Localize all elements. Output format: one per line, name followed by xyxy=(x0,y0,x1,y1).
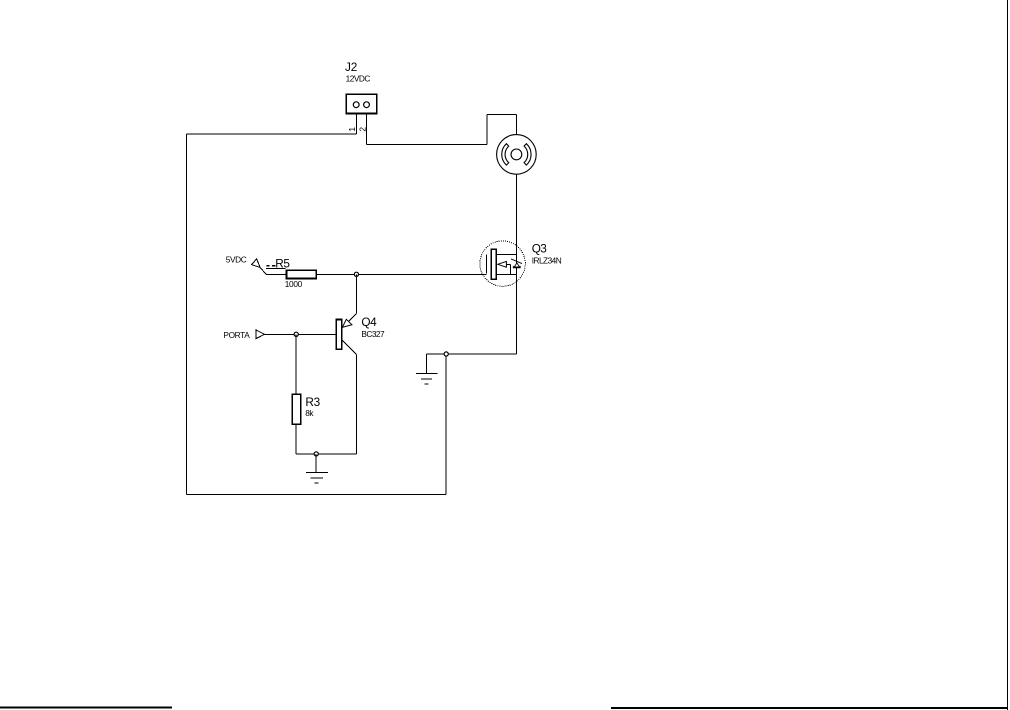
mosfet Q3 envelope circle xyxy=(480,241,525,286)
wire bottom horizontal xyxy=(186,493,446,495)
resistor R5 body xyxy=(287,270,317,278)
wire R3 top xyxy=(295,334,297,394)
wire up jog xyxy=(486,115,488,145)
wire source horizontal xyxy=(427,353,517,355)
J2 pin 1 circle xyxy=(353,102,359,108)
J2 pin 2 circle xyxy=(364,102,370,108)
wire jog right to buzzer xyxy=(487,114,516,116)
buzzer body circle xyxy=(497,135,537,175)
junction bottom node xyxy=(314,452,318,456)
wire left edge vertical xyxy=(185,134,187,494)
wire top horizontal to left edge xyxy=(186,133,356,135)
Q3 body diode triangle xyxy=(514,263,519,267)
Q3 body diode cup xyxy=(513,266,520,268)
svg-text:12VDC: 12VDC xyxy=(346,74,371,84)
wire right edge up to source node xyxy=(445,354,447,494)
ground G2 stem xyxy=(315,454,317,473)
wire 5VDC lead diagonal xyxy=(260,268,266,275)
wire J2 pin2 down xyxy=(366,114,368,145)
wire pin2 horizontal right xyxy=(367,143,487,145)
Q3 source bottom connection xyxy=(496,273,516,275)
junction base/R3 xyxy=(294,332,298,336)
connector J2 xyxy=(346,94,377,113)
wire J2 pin1 down xyxy=(355,114,357,135)
Q3 substrate arrow xyxy=(498,261,507,267)
svg-text:BC327: BC327 xyxy=(361,329,385,339)
label R5 underline xyxy=(266,267,285,269)
Q3 gate bar xyxy=(485,255,487,274)
Q3 drain connection xyxy=(496,253,516,255)
wire collector diagonal xyxy=(342,340,357,354)
Q3 substrate arrow line xyxy=(506,263,510,265)
sheet border right edge xyxy=(1007,0,1009,710)
svg-text:Q3: Q3 xyxy=(532,242,547,256)
buzzer inner circle xyxy=(511,149,522,160)
wire emitter diagonal xyxy=(342,314,357,328)
svg-text:1: 1 xyxy=(347,127,357,132)
port flag PORTA triangle xyxy=(256,330,265,339)
wire base xyxy=(264,333,336,335)
transistor Q4 emitter arrow xyxy=(342,319,352,327)
ground G1 bars xyxy=(416,373,438,375)
ground G2 bars xyxy=(306,472,328,474)
svg-text:IRLZ34N: IRLZ34N xyxy=(532,255,562,265)
wire bottom node horizontal xyxy=(296,453,356,455)
svg-text:R3: R3 xyxy=(305,395,320,409)
svg-text:J2: J2 xyxy=(345,60,357,74)
svg-text:R5: R5 xyxy=(275,257,290,271)
resistor R3 body xyxy=(292,394,301,424)
wire drain vertical through Q3 xyxy=(515,174,517,354)
sheet border bottom-right segment xyxy=(611,707,1008,709)
wire R5 to gate xyxy=(316,273,486,275)
wire to R5 xyxy=(266,273,286,275)
Q3 channel plate xyxy=(491,249,496,279)
svg-text:1000: 1000 xyxy=(285,279,303,289)
svg-text:2: 2 xyxy=(357,127,367,132)
junction R5/Q4 emitter xyxy=(354,272,358,276)
buzzer right crescent xyxy=(524,144,531,165)
R5 leader dashes xyxy=(266,265,275,267)
svg-text:5VDC: 5VDC xyxy=(226,254,247,264)
wire collector vertical xyxy=(356,354,358,454)
svg-text:PORTA: PORTA xyxy=(223,330,250,340)
ground G1 stem xyxy=(426,354,428,374)
transistor Q4 base bar xyxy=(336,320,342,350)
wire buzzer top lead xyxy=(515,115,517,135)
power flag 5VDC triangle xyxy=(252,259,261,268)
junction at right edge node xyxy=(444,352,448,356)
wire emitter vertical xyxy=(355,274,357,313)
wire R3 bottom xyxy=(295,424,297,454)
buzzer left crescent xyxy=(502,144,509,165)
svg-text:8k: 8k xyxy=(305,408,314,418)
Q3 source up link xyxy=(509,264,511,274)
svg-text:Q4: Q4 xyxy=(361,315,377,329)
sheet border bottom-left segment xyxy=(0,706,172,708)
Q3 body diode diagonal xyxy=(511,259,522,264)
